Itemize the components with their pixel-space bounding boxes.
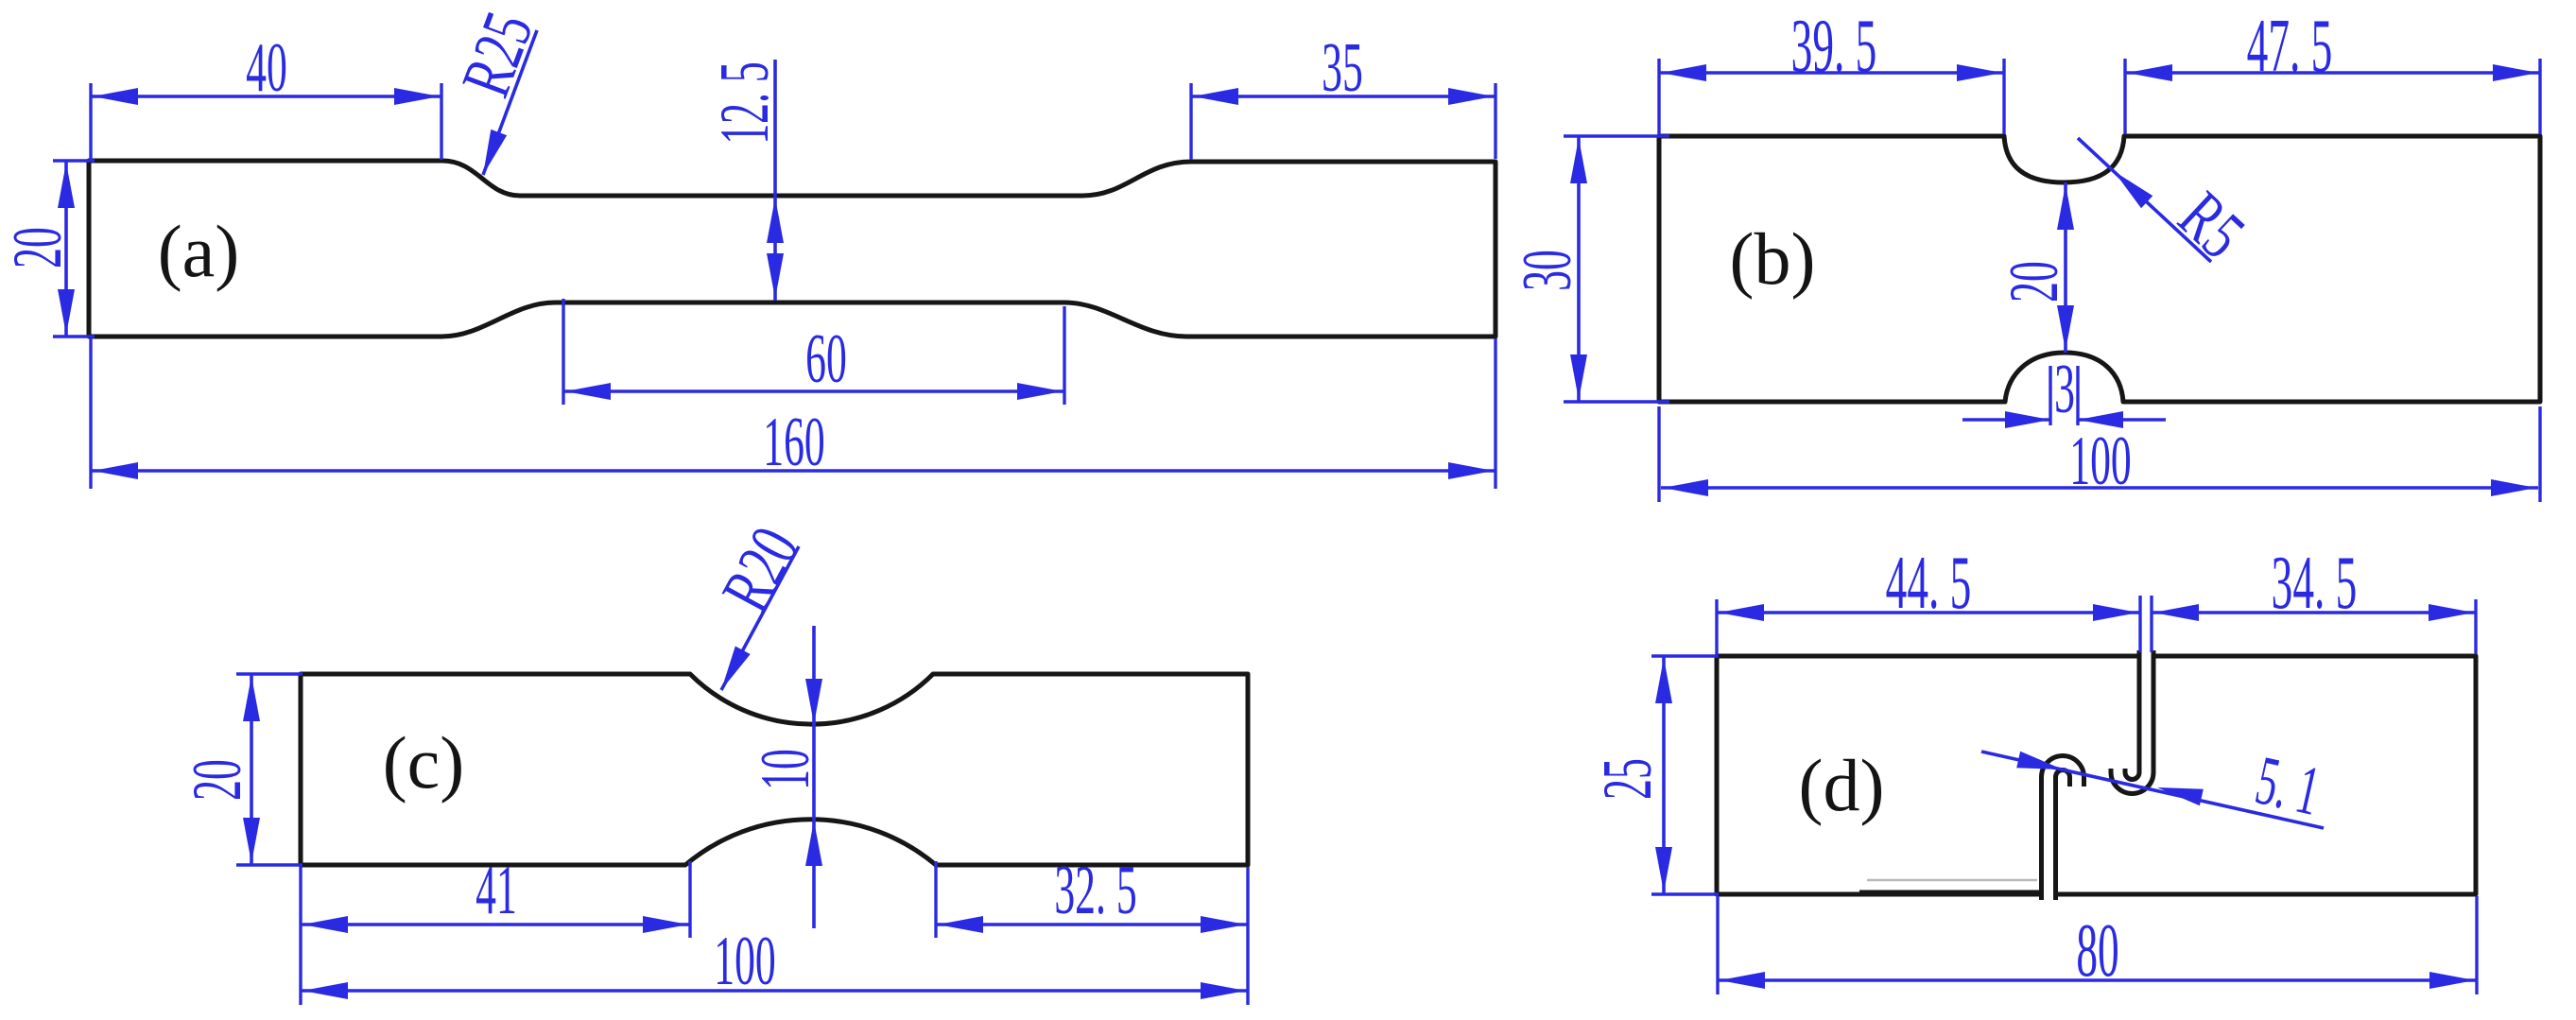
svg-text:80: 80 bbox=[2076, 909, 2118, 994]
dim 47.5: line bbox=[2125, 71, 2540, 75]
svg-text:34. 5: 34. 5 bbox=[2272, 542, 2358, 626]
svg-text:(b): (b) bbox=[1730, 217, 1816, 300]
doubled bottom edge segment bbox=[1859, 890, 2043, 893]
svg-text:40: 40 bbox=[246, 29, 287, 107]
dim 12.5: arrows bbox=[767, 198, 784, 243]
specimen b outline bbox=[1659, 136, 2540, 402]
dim 3: leader lines bbox=[1962, 418, 2166, 422]
dim 41: line bbox=[301, 923, 690, 926]
dim 32.5: arrows bbox=[938, 916, 983, 933]
dim 35: ext lines bbox=[1191, 83, 1495, 160]
dim 3: arrows bbox=[2005, 411, 2050, 428]
svg-text:100: 100 bbox=[714, 923, 775, 1000]
dim 35: arrows bbox=[1193, 88, 1238, 105]
dim 34.5: arrows bbox=[2153, 604, 2199, 621]
svg-text:(d): (d) bbox=[1799, 744, 1885, 826]
dim 25: line bbox=[1662, 656, 1666, 894]
faint inner line bbox=[1867, 879, 2037, 882]
dim 25: arrows bbox=[1655, 658, 1672, 703]
dim 35: line bbox=[1191, 95, 1495, 98]
dim 10: line bbox=[812, 626, 816, 928]
dim 47.5: arrows bbox=[2127, 64, 2172, 81]
dim 30: arrows bbox=[1570, 138, 1587, 183]
svg-text:44. 5: 44. 5 bbox=[1886, 542, 1972, 626]
R5 leader bbox=[2078, 138, 2211, 262]
svg-text:160: 160 bbox=[763, 404, 824, 481]
dim 44.5: arrows bbox=[1719, 604, 1764, 621]
dim 20c: line bbox=[250, 674, 253, 865]
dim 5.1 leader bbox=[1981, 752, 2324, 828]
dim 100c: arrows bbox=[303, 982, 348, 999]
dim 39.5: ext lines bbox=[1659, 59, 2004, 134]
specimen c outline bbox=[301, 674, 1248, 865]
svg-text:41: 41 bbox=[475, 852, 517, 929]
svg-text:20: 20 bbox=[179, 759, 256, 801]
dim 20c: arrows bbox=[243, 676, 260, 721]
dim 41: ext lines bbox=[301, 861, 690, 1005]
specimen d outline bbox=[1717, 656, 2476, 894]
dim 40: ext lines bbox=[91, 83, 441, 160]
dim 30: line bbox=[1577, 136, 1581, 402]
dim 39.5: line bbox=[1659, 71, 2004, 75]
dim 100b: ext lines bbox=[1659, 406, 2540, 502]
svg-text:35: 35 bbox=[1322, 29, 1363, 107]
dim 100c: line bbox=[301, 989, 1248, 993]
dim 20b: line bbox=[2064, 182, 2067, 353]
dim 100b: line bbox=[1661, 486, 2538, 490]
dim 160: ext lines bbox=[91, 338, 1495, 489]
dim 44.5: ext lines bbox=[1717, 596, 2152, 654]
dim 160: arrows bbox=[93, 462, 138, 479]
bottom slit bbox=[2049, 763, 2077, 900]
dim 20 left: line bbox=[64, 161, 68, 337]
dim 30: ticks bbox=[1564, 136, 1669, 402]
dim 47.5: ext lines bbox=[2125, 59, 2540, 134]
dim 12.5: line bbox=[773, 60, 777, 301]
dim 10: arrows bbox=[805, 679, 822, 724]
svg-text:32. 5: 32. 5 bbox=[1054, 852, 1136, 929]
svg-text:10: 10 bbox=[747, 749, 824, 790]
dim 100b: arrows bbox=[1663, 479, 1708, 496]
svg-text:12. 5: 12. 5 bbox=[706, 61, 784, 144]
svg-text:30: 30 bbox=[1509, 250, 1586, 291]
dim 3: ticks bbox=[2050, 366, 2078, 425]
svg-text:(a): (a) bbox=[158, 210, 240, 292]
dim 80: line bbox=[1718, 978, 2477, 982]
dim 40: arrows bbox=[93, 88, 138, 105]
dim 60: line bbox=[563, 389, 1064, 393]
dim 40: line bbox=[91, 95, 441, 98]
dim 20b: arrows bbox=[2057, 184, 2074, 230]
svg-text:39. 5: 39. 5 bbox=[1791, 5, 1877, 89]
dim 20 left: ticks bbox=[53, 161, 95, 337]
svg-text:(c): (c) bbox=[383, 721, 465, 804]
svg-text:25: 25 bbox=[1589, 758, 1667, 800]
specimen a outline bbox=[89, 161, 1495, 337]
svg-text:3: 3 bbox=[2054, 351, 2075, 428]
svg-text:20: 20 bbox=[0, 227, 77, 268]
dim 25: ticks bbox=[1651, 656, 1719, 894]
dim 41: arrows bbox=[303, 916, 348, 933]
dim 20c: ticks bbox=[236, 674, 303, 865]
dim 80: arrows bbox=[1720, 972, 1765, 989]
dim 160: line bbox=[91, 469, 1495, 473]
svg-text:20: 20 bbox=[1996, 261, 2073, 303]
dim 32.5: ext lines bbox=[936, 861, 1248, 1005]
dim 20 left: arrows bbox=[58, 163, 75, 208]
dim 60: arrows bbox=[565, 383, 611, 400]
R25 leader bbox=[483, 30, 537, 175]
svg-text:47. 5: 47. 5 bbox=[2247, 5, 2333, 89]
svg-text:60: 60 bbox=[805, 320, 847, 398]
top slit bbox=[2118, 650, 2147, 787]
dim 80: ext lines bbox=[1718, 896, 2477, 994]
R20 leader bbox=[721, 546, 799, 690]
dim 60: ext lines bbox=[563, 299, 1064, 405]
dim 39.5: arrows bbox=[1661, 64, 1706, 81]
dim 44.5: line bbox=[1717, 611, 2140, 614]
dim 32.5: line bbox=[936, 923, 1248, 926]
dim 34.5: ext line bbox=[2474, 599, 2477, 654]
svg-text:100: 100 bbox=[2069, 423, 2131, 500]
dim 34.5: line bbox=[2152, 611, 2476, 614]
